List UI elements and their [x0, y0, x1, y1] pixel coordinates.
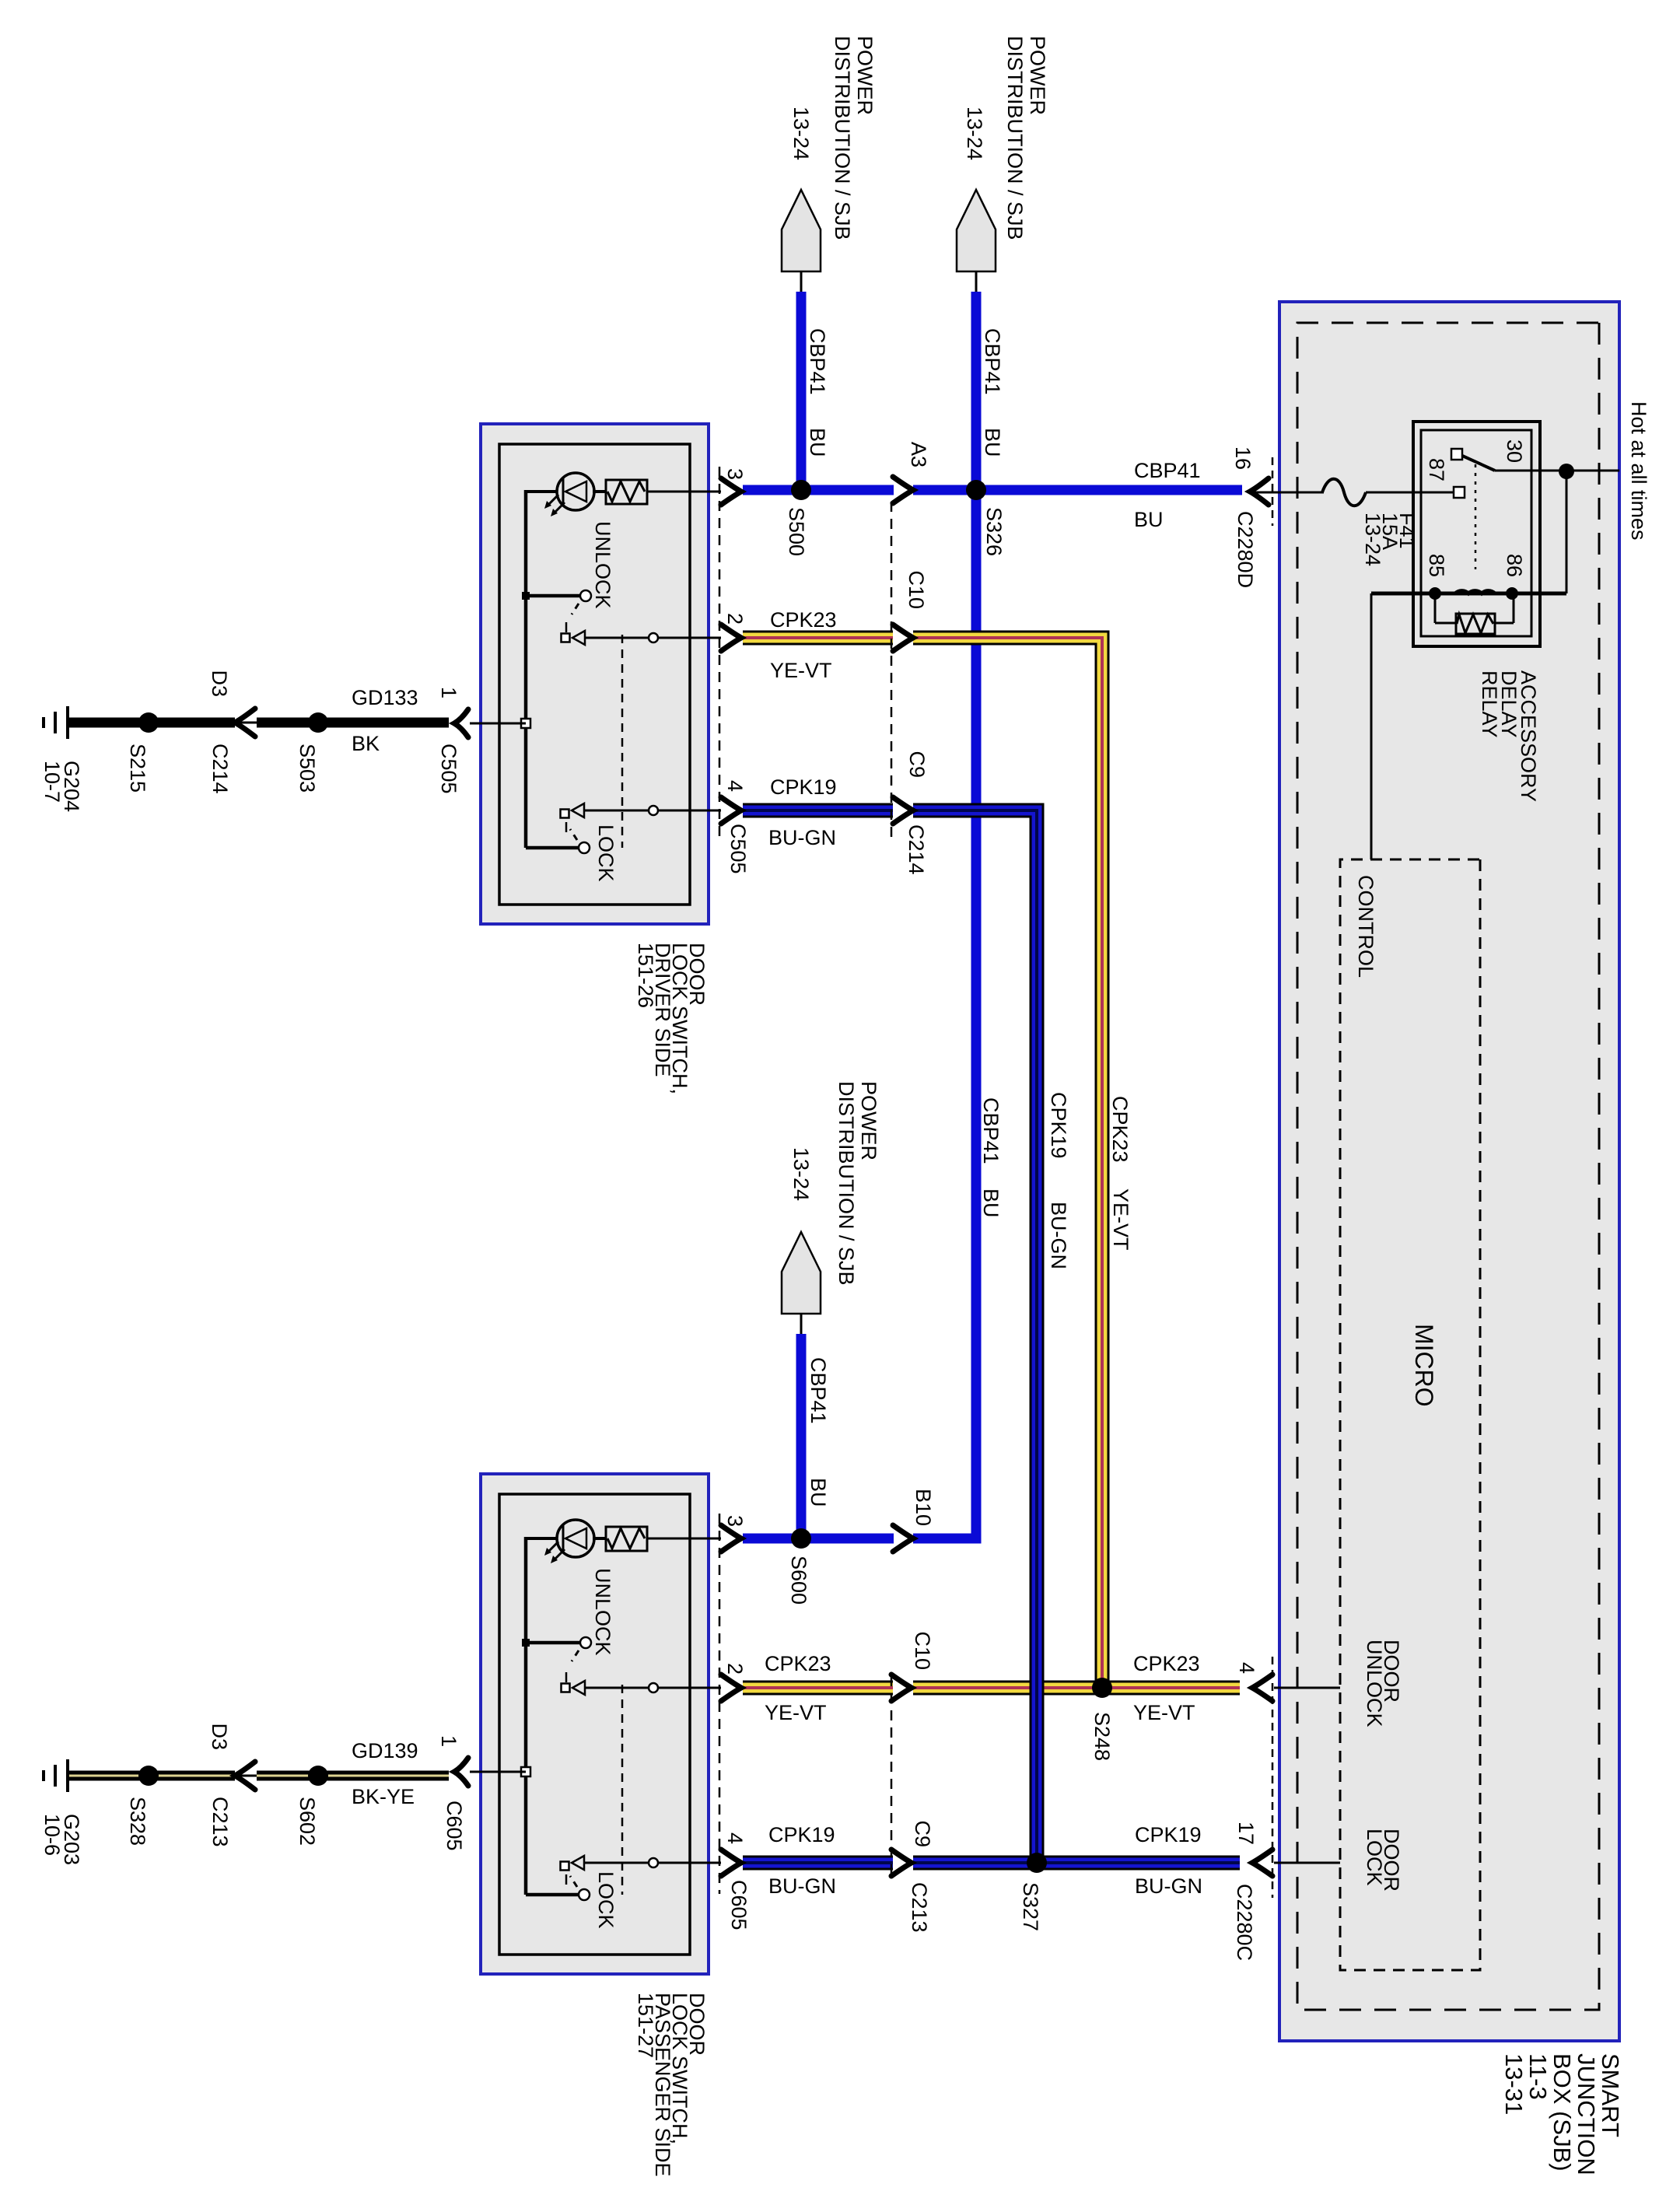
svg-text:BU: BU	[806, 428, 829, 457]
wire fuse to connector C2280D pin 16	[1253, 492, 1324, 494]
svg-text:S327: S327	[1019, 1882, 1042, 1931]
wire pentagon to CBP41 wire S326	[975, 271, 978, 293]
svg-text:CPK23: CPK23	[1108, 1096, 1132, 1163]
svg-text:C214: C214	[905, 824, 928, 875]
connector C dashed line at switch box	[719, 1514, 721, 1894]
svg-text:4: 4	[723, 1832, 747, 1844]
wire pentagon to CBP41 wire S500	[800, 271, 803, 293]
svg-text:S602: S602	[296, 1797, 319, 1846]
fuse F41 15A	[1322, 479, 1366, 506]
wire CBP41 BU bus S326 to passenger B10 corner	[913, 490, 976, 1538]
connector C dashed line at switch box	[719, 467, 721, 842]
svg-text:CBP41: CBP41	[981, 328, 1004, 395]
svg-text:JUNCTION: JUNCTION	[1573, 2053, 1600, 2175]
svg-text:13-24: 13-24	[789, 1147, 813, 1201]
switch common rail wire	[524, 1537, 528, 1895]
svg-text:CPK19: CPK19	[770, 775, 837, 799]
svg-text:POWER: POWER	[853, 36, 877, 115]
svg-text:1: 1	[437, 687, 460, 698]
connector arrow SJB DOOR UNLOCK pin 4	[1252, 1675, 1272, 1701]
wire lamp to switch rail	[524, 1537, 557, 1540]
svg-text:30: 30	[1503, 439, 1526, 463]
connector arrow A3	[893, 477, 913, 503]
svg-text:GD139: GD139	[352, 1739, 418, 1762]
power distribution symbol feeding S600	[782, 1232, 821, 1314]
node S602	[308, 1766, 328, 1786]
wire CBP41 BU feed to S600	[796, 1334, 807, 1538]
Smart Junction Box (SJB) enclosure	[1279, 302, 1619, 2041]
wire CBP41 BU from A3 through S500 to driver pin 3	[743, 485, 894, 495]
connector arrow B10	[893, 1525, 913, 1552]
connector dashed line C10/C9 passenger	[891, 1676, 893, 1876]
svg-text:17: 17	[1234, 1822, 1258, 1845]
svg-text:C213: C213	[208, 1797, 232, 1847]
wire CPK23 riser to SJB DOOR UNLOCK pin 4	[1102, 1681, 1240, 1696]
svg-text:CPK19: CPK19	[1047, 1092, 1070, 1159]
wire GD133 BK ground feed	[257, 718, 449, 728]
node relay pin 85 junction	[1429, 587, 1441, 600]
svg-text:CPK23: CPK23	[1133, 1652, 1200, 1675]
wire CPK23 riser driver pin 2 lower	[743, 631, 893, 646]
svg-text:151-27: 151-27	[634, 1993, 657, 2058]
svg-text:85: 85	[1425, 554, 1448, 577]
svg-text:CPK19: CPK19	[768, 1823, 835, 1846]
connector arrow SJB DOOR LOCK pin 17 C2280C	[1252, 1850, 1272, 1876]
svg-text:1: 1	[437, 1735, 460, 1747]
connector dashed line C2280C	[1272, 1657, 1274, 1898]
svg-text:C10: C10	[905, 570, 928, 609]
wire CBP41 BU from C2280D to S326	[976, 485, 1242, 495]
svg-text:BU: BU	[1134, 508, 1164, 531]
svg-text:CBP41: CBP41	[979, 1097, 1003, 1164]
pin 2 wire passenger side switch	[585, 1687, 721, 1689]
svg-text:YE-VT: YE-VT	[1109, 1188, 1132, 1251]
relay suppression resistor R	[1513, 593, 1515, 623]
pin 4 contact	[649, 1858, 658, 1867]
node S328	[138, 1766, 159, 1786]
svg-text:DISTRIBUTION / SJB: DISTRIBUTION / SJB	[835, 1081, 858, 1286]
relay armature dotted link	[1475, 464, 1477, 569]
wire CPK19 BU-GN bus driver pin4 corner to S327	[913, 810, 1037, 1863]
svg-text:13-31: 13-31	[1500, 2053, 1528, 2115]
SJB inner dashed outline	[1297, 323, 1599, 2010]
svg-text:C9: C9	[905, 751, 929, 778]
svg-text:C605: C605	[443, 1801, 466, 1851]
svg-text:S500: S500	[785, 507, 808, 556]
switch common rail wire	[524, 490, 528, 848]
wire CBP41 riser passenger pin 3 lower	[743, 1534, 894, 1544]
svg-text:UNLOCK: UNLOCK	[591, 1568, 614, 1656]
svg-text:13-24: 13-24	[789, 107, 813, 160]
svg-text:10-6: 10-6	[40, 1814, 64, 1856]
svg-text:CBP41: CBP41	[1134, 459, 1201, 482]
svg-text:13-24: 13-24	[963, 107, 986, 160]
svg-text:YE-VT: YE-VT	[770, 659, 832, 682]
svg-text:LOCK: LOCK	[594, 824, 618, 882]
pin 1 wire passenger side switch	[470, 1771, 526, 1773]
svg-text:BU: BU	[981, 428, 1004, 457]
svg-text:13-24: 13-24	[1361, 513, 1384, 566]
pin 4 wire driver side switch	[584, 810, 721, 812]
node S327	[1027, 1853, 1047, 1873]
pin 1 ground contact on rail	[521, 719, 530, 728]
pin 2 contact	[649, 1683, 658, 1692]
indicator lamp LED driver side switch	[593, 490, 606, 493]
node S248	[1092, 1678, 1112, 1698]
node junction on pin30 feed	[1559, 464, 1574, 479]
svg-text:86: 86	[1503, 554, 1526, 577]
svg-text:2: 2	[723, 1663, 747, 1675]
svg-text:LOCK: LOCK	[594, 1871, 618, 1929]
svg-text:GD133: GD133	[352, 686, 418, 709]
svg-text:CBP41: CBP41	[807, 1357, 830, 1424]
svg-text:CPK23: CPK23	[770, 608, 837, 632]
svg-text:C9: C9	[911, 1820, 934, 1847]
connector dashed line C2280D	[1272, 457, 1274, 526]
svg-text:A3: A3	[907, 442, 930, 467]
mechanical link dashed	[621, 635, 624, 848]
pin 2 wire driver side switch	[585, 637, 721, 639]
wire DOOR UNLOCK output from MICRO	[1274, 1687, 1340, 1689]
door lock switch passenger side box	[481, 1474, 709, 1974]
wire CBP41 BU feed to S500	[796, 292, 807, 490]
svg-text:BU: BU	[807, 1478, 830, 1507]
wire Hot-at-all-times feed to relay pin 30	[1495, 470, 1619, 472]
svg-text:B10: B10	[912, 1489, 935, 1526]
UNLOCK switch	[526, 1641, 581, 1645]
svg-text:BK: BK	[352, 732, 380, 755]
svg-text:S328: S328	[126, 1797, 149, 1846]
svg-text:S503: S503	[296, 744, 319, 793]
LOCK switch	[526, 846, 579, 850]
UNLOCK switch	[526, 594, 581, 598]
wire CBP41 BU from S326 to A3	[913, 485, 976, 495]
wire pentagon to CBP41 wire S600	[800, 1314, 803, 1335]
svg-text:C505: C505	[726, 824, 750, 874]
node S326	[966, 480, 986, 500]
svg-text:4: 4	[1235, 1662, 1258, 1674]
ground symbol G204	[66, 706, 69, 739]
node S215	[138, 712, 159, 733]
door lock switch driver side box	[481, 424, 709, 924]
svg-text:BK-YE: BK-YE	[352, 1785, 415, 1808]
svg-text:C10: C10	[911, 1631, 934, 1670]
svg-text:C2280D: C2280D	[1234, 511, 1257, 588]
svg-text:C2280C: C2280C	[1233, 1884, 1256, 1961]
svg-text:UNLOCK: UNLOCK	[1363, 1640, 1386, 1727]
wire CBP41 BU feed to S326	[971, 292, 982, 490]
svg-text:11-3: 11-3	[1524, 2053, 1552, 2100]
power distribution symbol feeding S326	[957, 190, 996, 271]
svg-text:87: 87	[1425, 458, 1448, 481]
wire CONTROL from relay coil to MICRO	[1370, 593, 1373, 859]
connector arrow C9 passenger	[891, 1850, 912, 1876]
svg-text:BU-GN: BU-GN	[768, 826, 836, 849]
LOCK switch	[526, 1893, 579, 1897]
svg-text:DISTRIBUTION / SJB: DISTRIBUTION / SJB	[1003, 36, 1027, 240]
svg-text:BU-GN: BU-GN	[1135, 1874, 1202, 1898]
pin 3 arrow driver side switch	[647, 491, 721, 493]
svg-text:BU: BU	[979, 1188, 1003, 1218]
svg-text:S600: S600	[787, 1556, 810, 1605]
svg-text:4: 4	[723, 780, 747, 792]
svg-text:DISTRIBUTION / SJB: DISTRIBUTION / SJB	[831, 36, 854, 240]
wire lamp to switch rail	[524, 490, 557, 493]
pin 2 contact	[649, 633, 658, 642]
relay coil	[1455, 591, 1495, 593]
svg-text:S326: S326	[982, 507, 1006, 556]
mechanical link dashed	[621, 1685, 624, 1895]
pin 1 wire driver side switch	[470, 723, 526, 725]
ground symbol G203	[66, 1759, 69, 1792]
svg-text:YE-VT: YE-VT	[765, 1701, 827, 1724]
svg-text:10-7: 10-7	[40, 761, 64, 803]
wire relay 87 to fuse F41	[1366, 492, 1454, 494]
svg-text:3: 3	[723, 468, 747, 480]
svg-text:CPK23: CPK23	[765, 1652, 831, 1675]
node S600	[791, 1528, 811, 1549]
connector dashed line C10/C9 driver	[891, 502, 893, 844]
svg-text:2: 2	[723, 613, 747, 625]
svg-text:3: 3	[723, 1515, 747, 1527]
connector arrow C10 driver	[893, 625, 913, 651]
svg-text:MICRO: MICRO	[1410, 1324, 1438, 1407]
svg-text:LOCK: LOCK	[1363, 1829, 1386, 1886]
svg-text:BOX (SJB): BOX (SJB)	[1549, 2053, 1576, 2172]
wire CPK19 riser to SJB DOOR LOCK pin 17	[1037, 1856, 1240, 1871]
svg-text:RELAY: RELAY	[1478, 670, 1501, 738]
node relay pin 86 junction	[1506, 587, 1518, 600]
indicator lamp LED passenger side switch	[593, 1537, 606, 1540]
svg-text:YE-VT: YE-VT	[1133, 1701, 1195, 1724]
pin 4 wire passenger side switch	[584, 1862, 721, 1864]
MICRO dashed box inside SJB	[1340, 859, 1480, 1970]
wire CPK23 YE-VT bus driver pin2 corner to S248	[913, 638, 1102, 1688]
connector arrow C214 D3	[235, 722, 257, 724]
svg-text:C605: C605	[727, 1880, 751, 1930]
resistor in series with lamp	[606, 480, 647, 504]
svg-text:CBP41: CBP41	[806, 328, 829, 395]
wire CPK19 riser driver pin 4 lower	[743, 803, 893, 818]
svg-text:CPK19: CPK19	[1135, 1823, 1202, 1846]
relay coil bus wire	[1371, 592, 1566, 596]
wire DOOR LOCK output from MICRO	[1274, 1862, 1340, 1864]
svg-text:UNLOCK: UNLOCK	[591, 521, 614, 609]
svg-text:D3: D3	[208, 670, 231, 697]
svg-text:D3: D3	[208, 1723, 231, 1750]
svg-text:BU-GN: BU-GN	[768, 1874, 836, 1898]
svg-text:POWER: POWER	[1026, 36, 1049, 115]
pin 1 ground contact on rail	[521, 1767, 530, 1776]
svg-text:C214: C214	[208, 744, 232, 794]
resistor in series with lamp	[606, 1527, 647, 1551]
connector arrow C213 D3	[235, 1775, 257, 1777]
svg-text:POWER: POWER	[857, 1081, 880, 1160]
wire GD139 BK-YE ground feed	[257, 1771, 449, 1781]
power distribution symbol feeding S500	[782, 190, 821, 271]
connector arrow C10 passenger	[891, 1675, 912, 1701]
svg-text:C213: C213	[908, 1882, 931, 1933]
wire junction to coil bus	[1566, 471, 1568, 593]
pin 4 contact	[649, 806, 658, 815]
relay blade contact pad	[1451, 449, 1462, 460]
svg-text:SMART: SMART	[1597, 2053, 1624, 2137]
svg-text:C505: C505	[437, 744, 460, 794]
svg-text:16: 16	[1231, 446, 1255, 470]
node S500	[791, 480, 811, 500]
svg-text:Hot at all times: Hot at all times	[1627, 401, 1650, 541]
relay pin 87 contact	[1454, 487, 1465, 498]
connector arrow C9 driver	[893, 797, 913, 824]
relay switch blade	[1461, 455, 1495, 471]
svg-text:BU-GN: BU-GN	[1047, 1202, 1070, 1269]
node S503	[308, 712, 328, 733]
svg-text:S215: S215	[126, 744, 149, 793]
svg-text:151-26: 151-26	[634, 943, 657, 1008]
pin 3 arrow passenger side switch	[647, 1538, 721, 1540]
connector C2280D arrow pin 16	[1250, 478, 1269, 505]
svg-text:CONTROL: CONTROL	[1354, 875, 1377, 978]
svg-text:S248: S248	[1090, 1712, 1114, 1761]
relay ACCESSORY DELAY RELAY box	[1413, 422, 1540, 646]
